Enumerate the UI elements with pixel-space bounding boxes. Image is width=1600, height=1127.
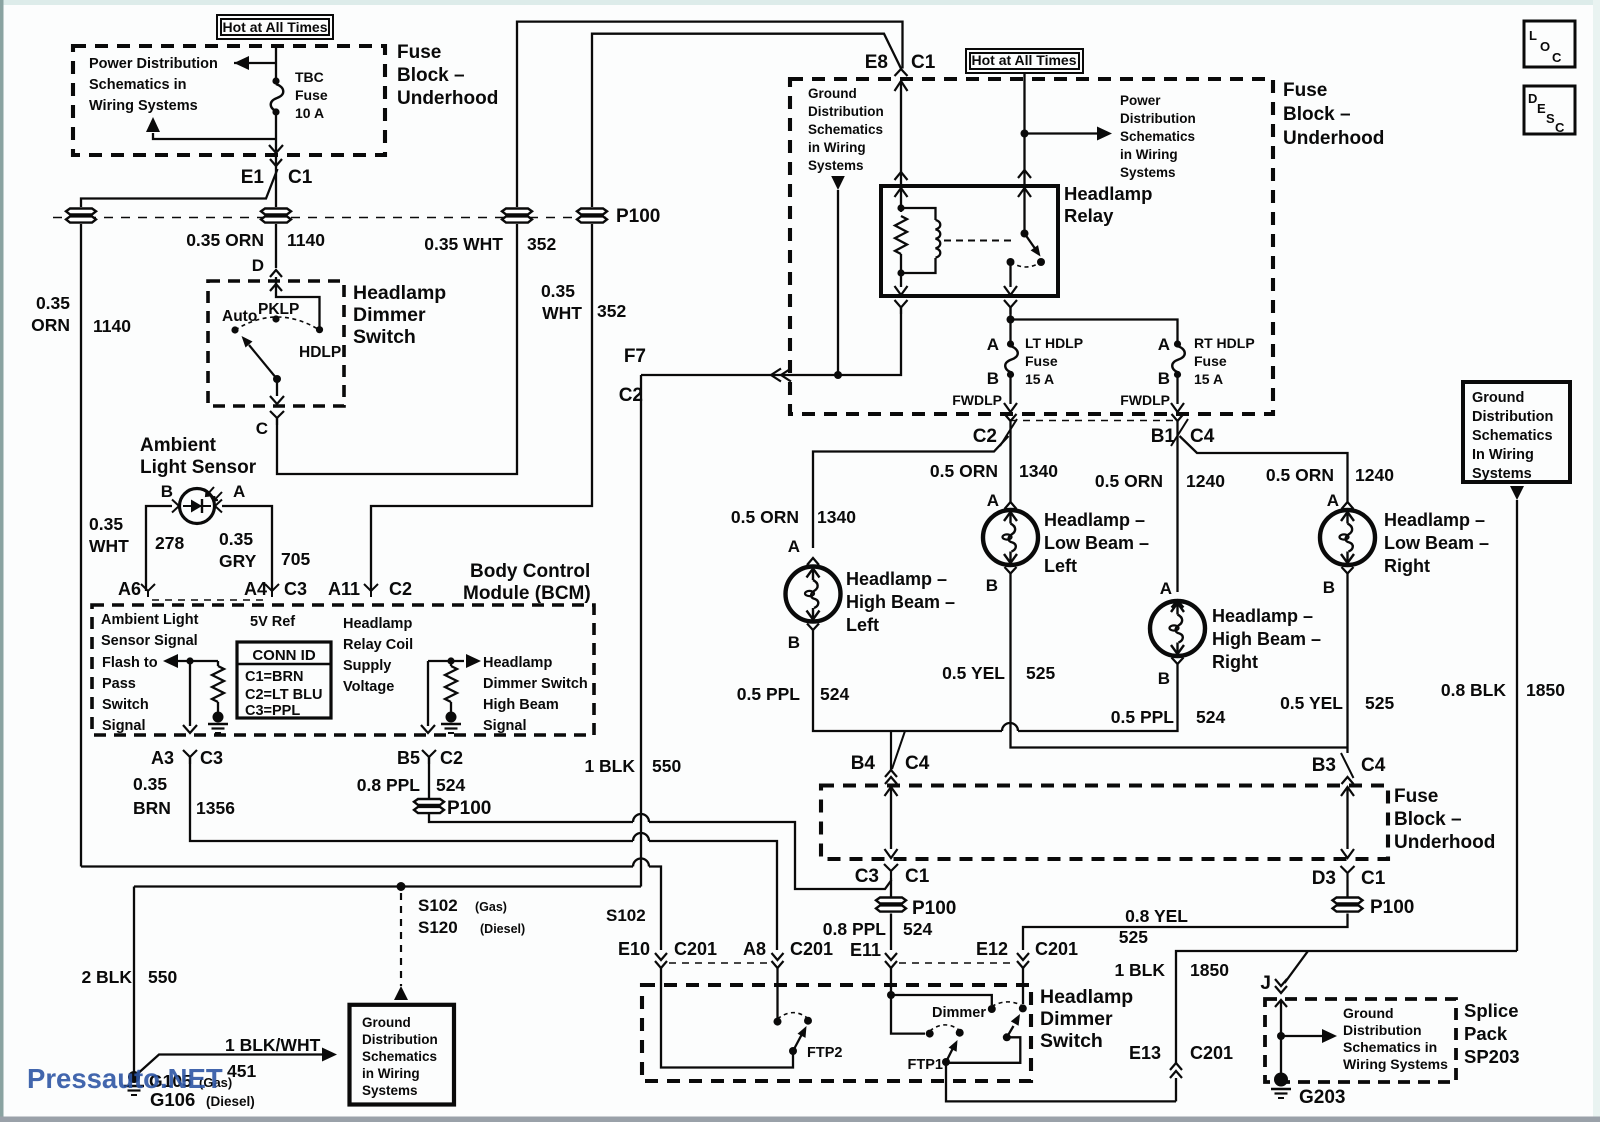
wire ORN 1140 down left side (80, 224, 82, 867)
svg-text:10 A: 10 A (295, 105, 324, 121)
svg-text:FWDLP: FWDLP (1120, 392, 1170, 408)
svg-text:B5: B5 (397, 748, 420, 768)
junction node ground distribution F7 (834, 371, 842, 379)
svg-text:C3=PPL: C3=PPL (245, 703, 300, 719)
svg-text:Ambient: Ambient (140, 435, 217, 456)
svg-text:0.35: 0.35 (219, 529, 253, 549)
grommet 4 (577, 209, 607, 223)
svg-text:Left: Left (846, 615, 879, 635)
svg-text:Ground: Ground (1343, 1005, 1394, 1021)
junction node fuse feed split (1007, 316, 1015, 324)
wire branch low beam right feed (1180, 436, 1348, 502)
svg-text:1340: 1340 (817, 507, 856, 527)
svg-text:Ambient Light: Ambient Light (101, 612, 199, 628)
svg-text:1240: 1240 (1186, 471, 1225, 491)
CONN ID table (237, 642, 331, 718)
wire 0.35 WHT 352 grommet 4 to E8 diagonal (592, 34, 901, 207)
svg-text:705: 705 (281, 549, 310, 569)
svg-text:P100: P100 (447, 798, 491, 819)
wire B3 through fuse block (1341, 787, 1354, 796)
svg-text:Wiring Systems: Wiring Systems (1343, 1056, 1448, 1072)
svg-text:C2=LT BLU: C2=LT BLU (245, 687, 322, 703)
switch common pivot (273, 375, 281, 383)
switch FTP2 dashed arc (778, 1013, 809, 1019)
ground BCM right (446, 712, 457, 723)
relay coil node top (897, 204, 904, 211)
svg-text:Dimmer Switch: Dimmer Switch (483, 676, 588, 692)
svg-text:SP203: SP203 (1464, 1046, 1520, 1067)
svg-text:Underhood: Underhood (397, 88, 498, 109)
wire 2 BLK splice line (134, 885, 641, 887)
svg-text:1140: 1140 (287, 230, 325, 250)
wire low beam left feed (1009, 421, 1011, 502)
wire E1 to grommets (275, 155, 277, 207)
svg-text:CONN ID: CONN ID (252, 647, 316, 664)
svg-text:Power: Power (1120, 93, 1161, 108)
svg-text:2 BLK: 2 BLK (81, 967, 132, 987)
reference arrow headlamp dimmer high beam signal (428, 660, 464, 662)
svg-text:352: 352 (597, 301, 626, 321)
svg-text:1140: 1140 (93, 316, 131, 336)
svg-text:1850: 1850 (1190, 960, 1229, 980)
svg-text:Headlamp: Headlamp (353, 282, 446, 304)
wire E11 to FTP1 contact (891, 995, 925, 1034)
svg-text:B: B (161, 482, 173, 501)
svg-text:1 BLK: 1 BLK (1114, 960, 1165, 980)
svg-text:D: D (252, 256, 264, 275)
svg-text:B: B (788, 633, 800, 652)
thin dashed connector line E10-A8 (669, 962, 768, 964)
switch dimmer arm (1007, 1026, 1014, 1037)
svg-text:E12: E12 (976, 939, 1008, 959)
svg-text:C201: C201 (1035, 939, 1078, 959)
svg-text:524: 524 (903, 919, 932, 939)
wire 0.35 WHT 352 from C to grommet 3 (277, 224, 517, 474)
svg-text:C201: C201 (674, 939, 717, 959)
svg-text:C201: C201 (790, 939, 833, 959)
svg-text:C4: C4 (1190, 426, 1215, 447)
lamp headlamp high beam right (1150, 601, 1205, 656)
svg-text:0.35: 0.35 (89, 514, 123, 534)
wire A8 inside switch (776, 968, 778, 1018)
reference arrow ground distribution (splice pack) (1281, 1035, 1322, 1037)
wire feed to RT fuse (1011, 320, 1178, 346)
headlamp relay box (881, 186, 1058, 296)
wire 0.5 PPL high beams common (813, 630, 1002, 731)
svg-text:Module (BCM): Module (BCM) (463, 583, 591, 604)
svg-text:0.5 YEL: 0.5 YEL (1280, 693, 1343, 713)
fuse TBC 10A (271, 84, 284, 112)
relay switch input arrow (1018, 188, 1031, 197)
svg-text:F7: F7 (624, 346, 646, 367)
wire C3 to grommet (890, 878, 892, 897)
firewall dashed line (53, 217, 612, 219)
svg-text:0.5 PPL: 0.5 PPL (737, 684, 801, 704)
wire ORN to E10 (81, 865, 633, 867)
svg-text:Schematics in: Schematics in (1343, 1039, 1437, 1055)
svg-text:C2: C2 (619, 385, 643, 406)
svg-text:Right: Right (1384, 556, 1430, 576)
svg-text:B: B (986, 576, 998, 595)
svg-text:15 A: 15 A (1194, 371, 1223, 387)
svg-text:1240: 1240 (1355, 465, 1394, 485)
svg-text:Headlamp –: Headlamp – (1212, 606, 1313, 626)
svg-text:Hot at All Times: Hot at All Times (971, 52, 1076, 68)
svg-text:C201: C201 (1190, 1043, 1233, 1063)
svg-text:Fuse: Fuse (295, 87, 328, 103)
svg-text:Relay Coil: Relay Coil (343, 637, 413, 653)
switch FTP2 contacts (774, 1018, 782, 1026)
svg-text:BRN: BRN (133, 798, 171, 818)
svg-text:Systems: Systems (1120, 165, 1176, 180)
wire 2 BLK 550 to ground (133, 887, 135, 1074)
svg-text:Distribution: Distribution (808, 104, 884, 119)
grommet P100 (PPL) (876, 898, 906, 912)
page frame right strip (1593, 0, 1600, 1122)
wire switch common to pin C (276, 379, 278, 396)
svg-text:A: A (788, 537, 800, 556)
splice S102 (397, 882, 406, 891)
arrow wire exits fuse block 1 (269, 145, 283, 153)
svg-text:Headlamp: Headlamp (343, 616, 412, 632)
relay coil to switch dashed link (944, 240, 1016, 242)
svg-text:FTP2: FTP2 (807, 1045, 842, 1061)
svg-text:In Wiring: In Wiring (1472, 447, 1534, 463)
svg-text:Dimmer: Dimmer (353, 304, 426, 326)
svg-text:Distribution: Distribution (1343, 1022, 1422, 1038)
relay coil node bottom (897, 269, 904, 276)
svg-text:Headlamp: Headlamp (1064, 183, 1152, 204)
connector pin D entry (270, 270, 282, 277)
relay resistor (895, 216, 907, 254)
svg-text:GRY: GRY (219, 551, 257, 571)
svg-text:S102: S102 (606, 906, 646, 925)
reference wire ground distribution to F7 (831, 176, 845, 190)
relay switched output arrow (1009, 262, 1011, 287)
junction node splice pack (1277, 1032, 1285, 1040)
svg-text:Systems: Systems (362, 1083, 418, 1098)
svg-text:A8: A8 (743, 939, 766, 959)
svg-text:C4: C4 (1361, 755, 1386, 776)
svg-text:Systems: Systems (1472, 466, 1532, 482)
wire 1 BLK WHT 451 to ground distribution (134, 1055, 322, 1078)
svg-text:524: 524 (1196, 707, 1225, 727)
wire 1 BLK 550 from F7 down (640, 375, 642, 887)
wire 0.8 YEL 525 to E12 (1023, 914, 1348, 951)
svg-text:Supply: Supply (343, 658, 391, 674)
svg-text:Schematics: Schematics (808, 122, 883, 137)
svg-text:0.5 ORN: 0.5 ORN (1095, 471, 1163, 491)
svg-text:Schematics in: Schematics in (89, 77, 187, 93)
junction node TBC fuse B (272, 108, 279, 115)
LOC reference box (1524, 21, 1575, 67)
svg-text:E: E (1537, 101, 1546, 116)
svg-text:Distribution: Distribution (1120, 111, 1196, 126)
svg-text:1340: 1340 (1019, 461, 1058, 481)
svg-text:Fuse: Fuse (1394, 786, 1438, 807)
wire 0.35 WHT 352 grommet 3 to E8 (517, 22, 903, 207)
relay contact dashed arc (1011, 262, 1042, 267)
wire B5 to grommet P100 (428, 757, 430, 799)
svg-text:Right: Right (1212, 652, 1258, 672)
svg-text:B4: B4 (851, 753, 876, 774)
svg-text:J: J (1260, 973, 1271, 994)
reference arrow to power distribution (left) (234, 62, 276, 64)
svg-text:Power Distribution: Power Distribution (89, 56, 218, 72)
wire BCM internal to A3 (189, 661, 191, 726)
svg-text:Ground: Ground (808, 86, 857, 101)
junction node TBC fuse A (272, 77, 279, 84)
svg-text:C: C (1555, 120, 1565, 135)
switch FTP1 dashed arc (930, 1025, 960, 1031)
wire high beam right feed (1176, 421, 1178, 592)
svg-text:LT HDLP: LT HDLP (1025, 335, 1083, 351)
dashed reference wire S102 to ground distribution (400, 893, 402, 986)
svg-text:Fuse: Fuse (1283, 80, 1327, 101)
fuse block underhood box 2 (790, 79, 1273, 414)
svg-text:Schematics: Schematics (1120, 129, 1195, 144)
svg-text:PKLP: PKLP (258, 301, 299, 318)
svg-text:0.35: 0.35 (36, 293, 70, 313)
svg-text:Block –: Block – (1394, 809, 1462, 830)
wire dimmer output to E13 (946, 1037, 1176, 1101)
wire 1 BLK 1850 (1176, 951, 1517, 1063)
svg-text:C1: C1 (905, 866, 930, 887)
svg-text:B: B (1158, 369, 1170, 388)
svg-text:S102: S102 (418, 896, 458, 915)
svg-text:352: 352 (527, 234, 556, 254)
svg-text:0.5 ORN: 0.5 ORN (731, 507, 799, 527)
svg-text:Fuse: Fuse (1194, 353, 1227, 369)
junction node BCM high-beam signal (447, 657, 454, 664)
svg-text:C1: C1 (1361, 868, 1386, 889)
svg-text:0.35 ORN: 0.35 ORN (186, 230, 264, 250)
relay coil winding (901, 208, 936, 220)
reference arrow to power distribution (up) (153, 133, 276, 139)
svg-text:0.35 WHT: 0.35 WHT (424, 234, 503, 254)
svg-text:Schematics: Schematics (1472, 428, 1553, 444)
wire headlamp relay coil supply from grommet 4 to BCM A11 (371, 224, 592, 591)
reference arrow from ground distribution box (top right) (1510, 486, 1524, 500)
wire 0.8 BLK 1850 up right side (1516, 500, 1518, 951)
svg-text:0.5 ORN: 0.5 ORN (1266, 465, 1334, 485)
svg-text:Low Beam –: Low Beam – (1044, 533, 1149, 553)
fuse RT HDLP 15A (1174, 340, 1181, 347)
svg-text:0.8 PPL: 0.8 PPL (357, 775, 421, 795)
wire hop PPL over BLK (633, 814, 649, 822)
svg-text:D: D (1528, 91, 1537, 106)
wire battery feed into TBC fuse (275, 46, 277, 84)
wire E10 inside switch (661, 968, 793, 1068)
wire BCM internal to B5 (427, 661, 429, 726)
svg-text:WHT: WHT (89, 536, 129, 556)
svg-text:Underhood: Underhood (1283, 128, 1384, 149)
svg-text:Pass: Pass (102, 676, 136, 692)
svg-text:Hot at All Times: Hot at All Times (222, 19, 327, 35)
thin dashed connector line A6-A4 (152, 599, 265, 601)
wire B4 through fuse block (885, 787, 898, 796)
svg-text:A: A (1160, 579, 1172, 598)
svg-text:E8: E8 (865, 52, 888, 73)
svg-text:C2: C2 (440, 748, 463, 768)
grommet 3 (502, 209, 532, 223)
svg-text:Block –: Block – (1283, 104, 1351, 125)
svg-text:Left: Left (1044, 556, 1077, 576)
svg-text:C: C (1552, 50, 1562, 65)
svg-text:Block –: Block – (397, 65, 465, 86)
wire E11 to dimmer contact (891, 995, 992, 1005)
svg-text:0.35: 0.35 (541, 281, 575, 301)
ground distribution schematics box (bottom left) (350, 1005, 455, 1105)
relay coil input arrow (895, 188, 908, 197)
svg-text:A: A (987, 491, 999, 510)
svg-text:ORN: ORN (31, 315, 70, 335)
junction node power distribution branch (1021, 130, 1029, 138)
svg-text:524: 524 (436, 775, 465, 795)
svg-text:Headlamp –: Headlamp – (1384, 510, 1485, 530)
svg-text:278: 278 (155, 533, 184, 553)
wire D3 to grommet (1346, 880, 1348, 897)
svg-text:Low Beam –: Low Beam – (1384, 533, 1489, 553)
svg-text:B3: B3 (1312, 755, 1336, 776)
svg-text:1356: 1356 (196, 798, 235, 818)
svg-text:D3: D3 (1312, 868, 1336, 889)
svg-text:E11: E11 (850, 940, 881, 960)
wire hop ORN over BLK (633, 859, 649, 867)
switch FTP1 contacts (926, 1030, 934, 1038)
svg-text:(Diesel): (Diesel) (206, 1094, 255, 1109)
switch dimmer dashed arc (992, 1002, 1023, 1007)
svg-text:A11: A11 (328, 579, 360, 599)
relay switch arm (1025, 234, 1036, 249)
svg-text:C3: C3 (200, 748, 223, 768)
svg-text:E13: E13 (1129, 1043, 1161, 1063)
svg-text:0.8 PPL: 0.8 PPL (823, 919, 887, 939)
svg-text:in Wiring: in Wiring (362, 1066, 420, 1081)
svg-text:Schematics: Schematics (362, 1049, 437, 1064)
wire hop PPL over YEL (1002, 723, 1018, 731)
svg-text:Switch: Switch (353, 326, 416, 348)
svg-text:0.5 ORN: 0.5 ORN (930, 461, 998, 481)
svg-text:C1=BRN: C1=BRN (245, 669, 303, 685)
svg-text:C: C (256, 419, 268, 438)
svg-text:in Wiring: in Wiring (808, 140, 866, 155)
svg-text:Relay: Relay (1064, 205, 1114, 226)
svg-text:Pack: Pack (1464, 1023, 1508, 1044)
svg-text:Dimmer: Dimmer (932, 1005, 986, 1021)
switch contact HDLP (316, 326, 323, 333)
svg-text:TBC: TBC (295, 69, 324, 85)
relay switch pivot (1021, 230, 1029, 238)
svg-text:A: A (1158, 335, 1170, 354)
wire branch to splice pack J (1285, 951, 1309, 983)
wire 0.8 PPL to E11 (890, 914, 892, 951)
wire hop BRN over BLK (633, 833, 649, 841)
DESC reference box (1524, 86, 1575, 134)
svg-text:C2: C2 (389, 579, 412, 599)
svg-text:Underhood: Underhood (1394, 832, 1495, 853)
junction node BCM flash-to-pass (186, 657, 193, 664)
svg-text:S120: S120 (418, 918, 458, 937)
wire 0.35 WHT 278 sensor B to BCM A6 (146, 506, 172, 591)
svg-text:Distribution: Distribution (362, 1032, 438, 1047)
headlamp dimmer switch box (upper) (208, 281, 344, 406)
svg-text:C4: C4 (905, 753, 930, 774)
svg-text:E1: E1 (241, 167, 265, 188)
ambient light sensor photodiode (180, 487, 223, 524)
svg-text:A: A (1327, 491, 1339, 510)
svg-text:Body Control: Body Control (470, 561, 590, 582)
grommet P100 (YEL) (1333, 898, 1363, 912)
switch arm to Auto (249, 345, 277, 379)
svg-text:Headlamp –: Headlamp – (846, 569, 947, 589)
thin dashed connector line E11-E12 (899, 962, 1013, 964)
grommet 2 (261, 209, 291, 223)
ground BCM left (213, 712, 224, 723)
wire E12 inside switch (1022, 968, 1024, 1004)
svg-text:525: 525 (1119, 927, 1148, 947)
grommet 1 (66, 209, 96, 223)
svg-text:E10: E10 (618, 939, 650, 959)
wire relay coil return to F7 (641, 307, 901, 375)
svg-text:C3: C3 (855, 866, 879, 887)
wire J into splice pack (1275, 1000, 1287, 1007)
svg-text:0.8 BLK: 0.8 BLK (1441, 680, 1507, 700)
switch contact PKLP (272, 315, 279, 322)
svg-text:P100: P100 (616, 206, 660, 227)
svg-text:RT HDLP: RT HDLP (1194, 335, 1255, 351)
svg-text:Switch: Switch (1040, 1030, 1103, 1052)
svg-text:FWDLP: FWDLP (952, 392, 1002, 408)
body control module box (92, 605, 594, 735)
ground G203 (1274, 1073, 1288, 1087)
svg-text:A: A (987, 335, 999, 354)
page frame left strip (0, 0, 4, 1122)
svg-text:Light Sensor: Light Sensor (140, 457, 257, 478)
svg-text:Splice: Splice (1464, 1000, 1519, 1021)
svg-text:0.35: 0.35 (133, 774, 167, 794)
lamp headlamp low beam right (1320, 510, 1375, 565)
svg-text:C2: C2 (973, 426, 997, 447)
svg-text:Sensor Signal: Sensor Signal (101, 633, 198, 649)
arrow wire E8 into fuse block (895, 81, 908, 91)
page frame bottom strip (0, 1117, 1600, 1123)
Hot at All Times label box (left) (217, 15, 333, 39)
svg-text:C3: C3 (284, 579, 307, 599)
svg-text:A3: A3 (151, 748, 174, 768)
svg-text:0.8 YEL: 0.8 YEL (1125, 906, 1188, 926)
svg-text:P100: P100 (912, 898, 956, 919)
wire 0.35 GRY 705 sensor A to BCM A4 (222, 506, 272, 591)
svg-text:Headlamp: Headlamp (483, 655, 552, 671)
svg-text:524: 524 (820, 684, 849, 704)
svg-text:A6: A6 (118, 579, 141, 599)
svg-text:Ground: Ground (362, 1015, 411, 1030)
wire TBC fuse output (275, 112, 277, 151)
wire 0.8 PPL 524 to C3 C1 junction (429, 814, 633, 822)
switch dimmer contacts (988, 1005, 996, 1013)
relay terminal chevrons bottom (895, 300, 908, 314)
svg-text:L: L (1529, 28, 1537, 43)
ground distribution schematics box (top right) (1463, 382, 1570, 482)
svg-text:Switch: Switch (102, 697, 149, 713)
svg-text:O: O (1540, 39, 1550, 54)
switch FTP2 arm (793, 1035, 802, 1051)
svg-text:0.5 PPL: 0.5 PPL (1111, 707, 1175, 727)
svg-text:Signal: Signal (483, 718, 527, 734)
relay contact nodes (1007, 258, 1015, 266)
fuse block underhood box 3 (821, 786, 1388, 860)
